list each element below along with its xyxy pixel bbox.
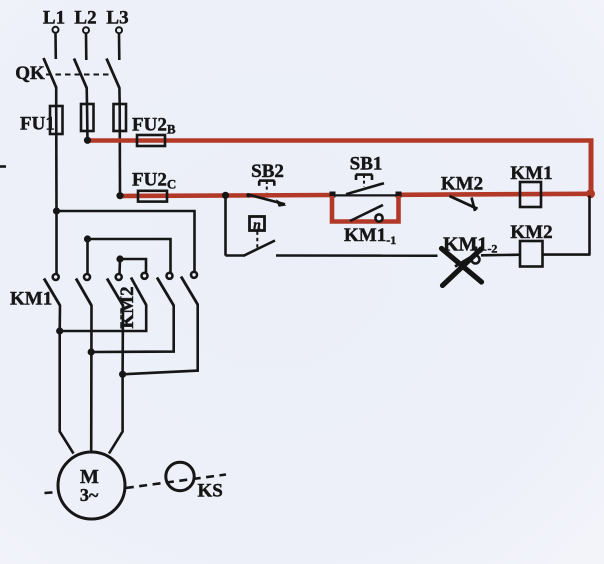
fuse FU2B [132,115,176,147]
svg-text:KM2: KM2 [117,286,138,328]
junction red corner [586,189,595,198]
left edge artifact mark [0,165,6,168]
wire distribution y211 to KM2 pole3 [57,211,195,272]
wire QK pole1 to FU1 [55,87,58,107]
contact KS (speed relay) [244,217,276,256]
fuse FU1 pole3 [114,104,127,196]
svg-text:3~: 3~ [80,485,99,505]
node L2 [74,8,96,34]
fuse FU2C [132,170,176,202]
wire KM2 pole3 out (cross to W) [123,304,198,374]
contact KM1 main pole3 [107,274,123,306]
wire red right vertical [589,139,594,196]
node L3 [106,8,128,34]
junction dot W [119,371,126,378]
fuse FU1 pole1 [50,106,63,211]
wire red control line B (right part) [398,194,592,195]
svg-text:n: n [253,218,261,233]
motor M [58,452,125,519]
wire distribution y239 to KM2 pole2 [88,239,171,273]
contact KM1 main pole2 [76,274,92,306]
speed switch KS [166,462,223,501]
wire lower control middle [276,254,438,257]
wire QK pole3 to FU1 [118,88,121,106]
junction dot phase1 / line y211 [53,207,60,214]
wire lower control left [225,254,244,257]
wire distribution y259 to KM2 pole1 [120,259,146,273]
wire L2 down to QK [85,33,88,60]
svg-text:L2: L2 [74,8,96,29]
svg-text:KM2: KM2 [441,174,483,195]
junction dot U [56,327,63,334]
coil KM1 [510,163,552,207]
svg-text:QK: QK [15,63,45,84]
wire KM2 coil right [543,253,591,256]
junction dot control branch [222,192,229,199]
wire black under SB1 contact [331,194,398,196]
wire motor line W lower [109,374,123,453]
shaft dashed line left stub [45,492,59,493]
pushbutton SB2 [246,161,286,207]
contact KM1-2 (crossed out) [443,234,497,267]
node L1 [43,8,65,33]
wire red self-holding loop [332,196,399,222]
wire KM1 pole3 out to motor line W [121,305,124,374]
fuse FU1 pole2 [81,104,94,141]
contact KM2 main pole2 [157,273,174,306]
wire phase2 into contact [86,239,89,274]
cross-out X over KM1-2 [442,249,482,286]
contact KM2 NC (interlock) [441,174,483,212]
junction dot phase2 / line y239 [84,235,91,242]
svg-text:SB2: SB2 [251,161,284,182]
svg-text:KS: KS [198,481,223,502]
shaft dashed line to KS [126,475,226,489]
wire QK pole2 to FU1 [85,88,88,106]
junction dot phase3 / line y259 [116,255,123,262]
wire KM1 pole1 out to motor line U [58,305,61,332]
svg-text:SB1: SB1 [350,154,383,175]
contact KM2 main pole3 [181,272,198,305]
contact KM2 main pole1 [131,273,148,305]
wire L1 down to QK [54,33,57,59]
wire phase3 into contact [118,259,121,274]
wire KM2 pole1 out (cross to U) [60,305,147,332]
junction dot phase3 / red line B [116,192,123,199]
contact KM1-1 (self-holding, in loop) [344,205,396,247]
wire lower control right [481,253,521,256]
svg-text:L1: L1 [43,8,65,29]
switch QK [15,58,119,88]
wire control branch down [224,196,227,256]
wire L3 down to QK [118,33,121,60]
coil KM2 [510,222,552,267]
junction dot V [88,348,95,355]
wire red control line B (left part) [120,195,333,196]
svg-text:KM1: KM1 [10,289,52,310]
wire right vertical (black, below red) [588,196,591,255]
wire phase1 into contact [55,211,58,274]
wire red control line A (top) [88,138,594,143]
pushbutton SB1 [330,154,402,198]
wire KM1 pole2 out to motor line V [90,305,93,453]
wire KM2 pole2 out (cross to V) [91,305,174,352]
svg-text:L3: L3 [106,8,128,29]
contact KM1 main pole1 [44,274,60,306]
wire motor line U lower [60,331,74,454]
junction dot phase2 / red line A [84,137,91,144]
